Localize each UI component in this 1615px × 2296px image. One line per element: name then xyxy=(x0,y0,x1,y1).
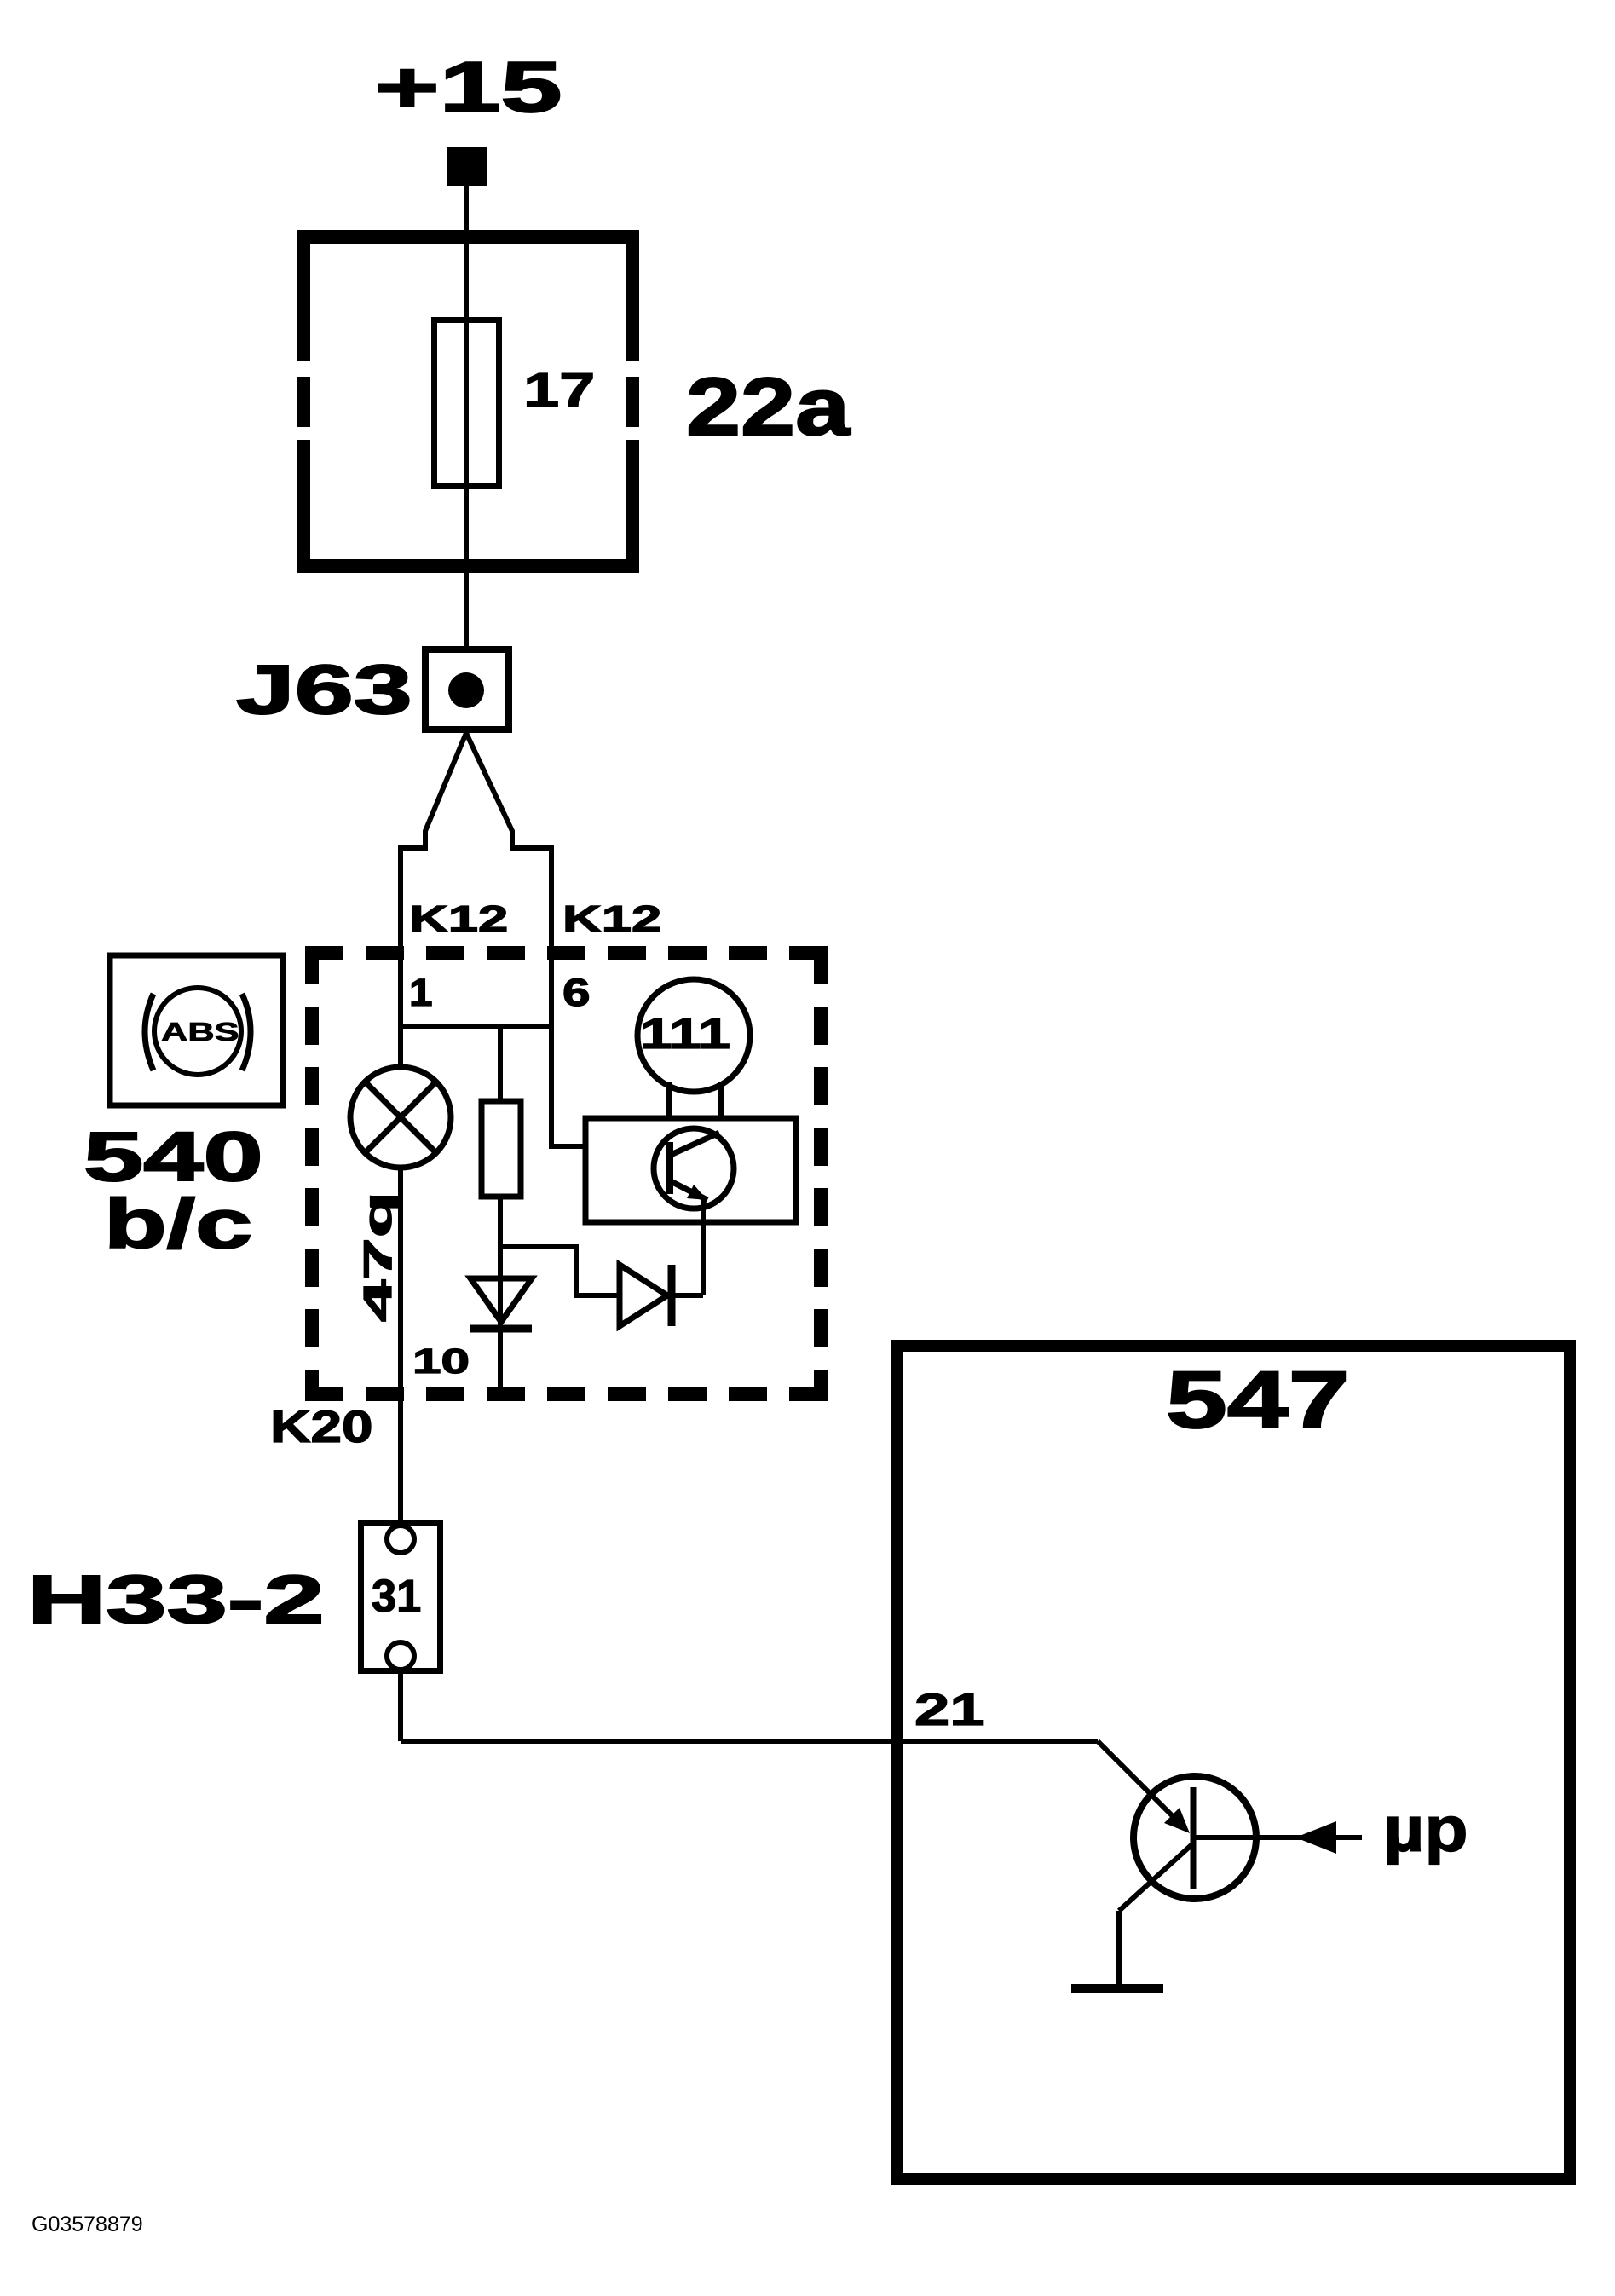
svg-text:111: 111 xyxy=(640,1010,730,1058)
svg-text:K12: K12 xyxy=(409,897,508,939)
svg-text:K12: K12 xyxy=(562,897,661,939)
svg-text:547: 547 xyxy=(1166,1355,1350,1445)
svg-text:540: 540 xyxy=(84,1117,263,1196)
svg-text:31: 31 xyxy=(372,1571,421,1622)
svg-text:+15: +15 xyxy=(375,48,562,128)
svg-text:ABS: ABS xyxy=(161,1017,239,1047)
svg-text:1: 1 xyxy=(409,972,433,1014)
svg-text:6: 6 xyxy=(562,972,591,1014)
svg-text:b/c: b/c xyxy=(104,1185,252,1262)
svg-text:J63: J63 xyxy=(236,651,412,729)
svg-text:22a: 22a xyxy=(686,361,851,453)
svg-text:µp: µp xyxy=(1383,1793,1468,1865)
svg-text:K20: K20 xyxy=(270,1401,373,1451)
svg-text:G03578879: G03578879 xyxy=(32,2212,143,2236)
svg-text:47q: 47q xyxy=(355,1191,399,1322)
svg-text:10: 10 xyxy=(412,1341,470,1381)
svg-text:21: 21 xyxy=(914,1684,985,1734)
svg-text:17: 17 xyxy=(523,363,595,418)
svg-text:H33-2: H33-2 xyxy=(27,1560,325,1637)
